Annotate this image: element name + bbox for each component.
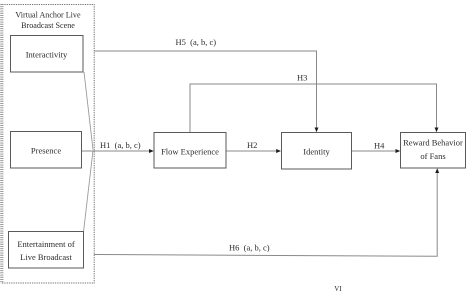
svg-text:Interactivity: Interactivity (26, 50, 68, 60)
svg-text:H2: H2 (247, 140, 257, 150)
svg-text:H3: H3 (297, 73, 307, 83)
svg-text:H1 (a, b, c): H1 (a, b, c) (100, 140, 141, 150)
svg-text:Flow Experience: Flow Experience (161, 147, 219, 157)
svg-text:H6 (a, b, c): H6 (a, b, c) (229, 243, 270, 253)
svg-text:Identity: Identity (303, 147, 330, 157)
svg-text:H5 (a, b, c): H5 (a, b, c) (176, 37, 217, 47)
svg-text:Virtual Anchor Live: Virtual Anchor Live (15, 11, 81, 20)
svg-text:Presence: Presence (31, 146, 61, 156)
svg-text:Entertainment of: Entertainment of (17, 239, 75, 249)
svg-text:Broadcast Scene: Broadcast Scene (21, 21, 75, 30)
svg-text:Live Broadcast: Live Broadcast (20, 252, 72, 262)
svg-text:VI: VI (334, 285, 342, 293)
svg-text:of Fans: of Fans (420, 151, 445, 161)
svg-text:Reward Behavior: Reward Behavior (403, 138, 463, 148)
svg-text:H4: H4 (374, 141, 385, 151)
